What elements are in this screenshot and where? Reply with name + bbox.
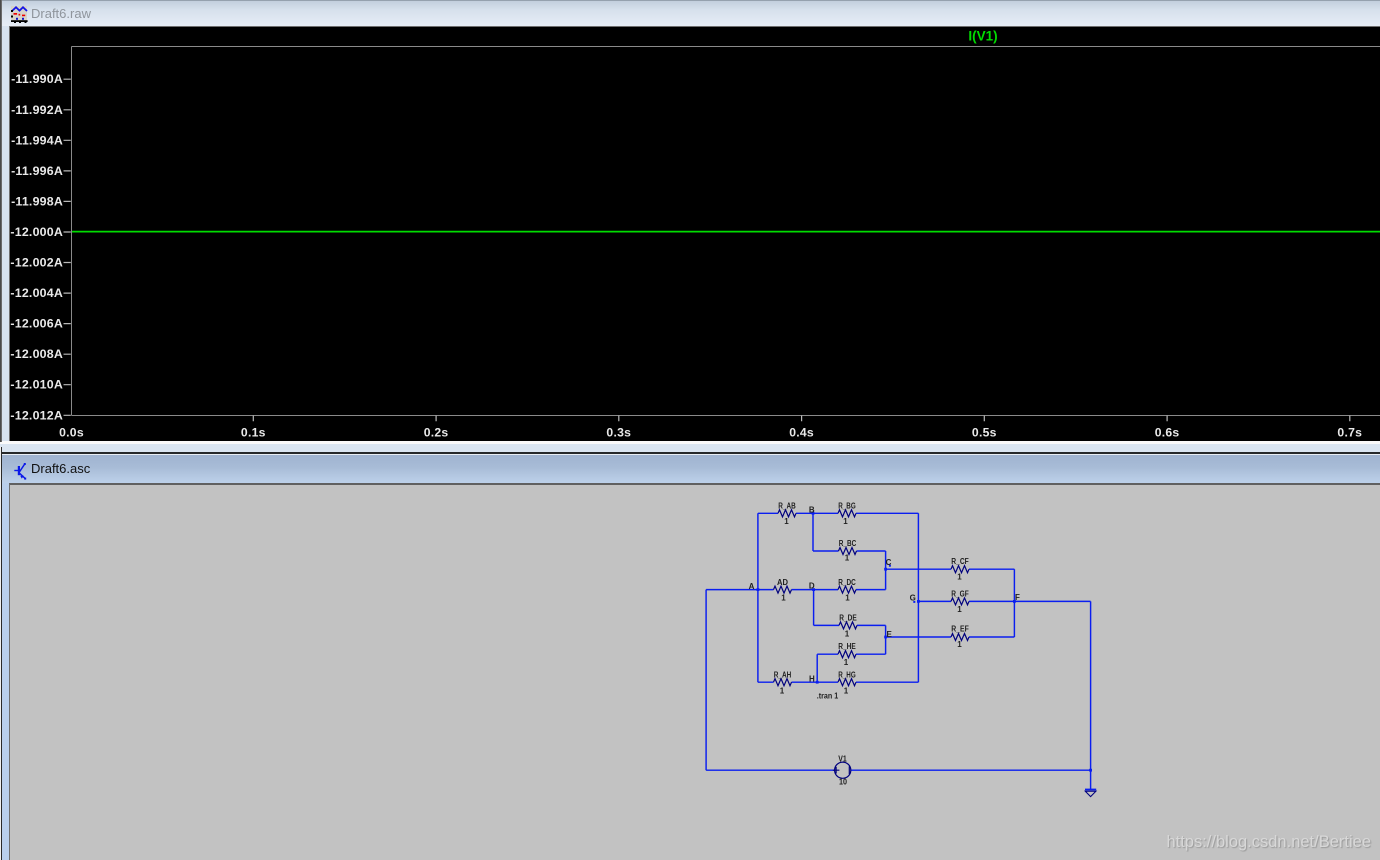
resistor R_EF <box>951 634 969 641</box>
wire A vertical <box>757 513 759 682</box>
gap band <box>0 441 1380 444</box>
svg-text:R_AH: R_AH <box>774 671 792 680</box>
resistor R_HE <box>838 651 856 658</box>
svg-text:-12.004A: -12.004A <box>10 286 63 300</box>
svg-text:1: 1 <box>780 686 785 695</box>
wire E column <box>885 625 887 654</box>
ground <box>1085 790 1096 797</box>
svg-text:E: E <box>887 630 893 639</box>
svg-text:R_HG: R_HG <box>838 671 856 680</box>
waveform window client area <box>9 26 1380 441</box>
svg-text:R_DE: R_DE <box>839 614 857 623</box>
svg-text:-12.006A: -12.006A <box>10 317 63 331</box>
svg-text:1: 1 <box>843 517 848 526</box>
schematic window icon (transistor glyph) <box>14 461 28 481</box>
resistor R_BC <box>839 548 857 555</box>
svg-text:0.3s: 0.3s <box>606 426 631 440</box>
svg-text:R_EF: R_EF <box>951 625 969 634</box>
resistor R_BG <box>838 510 856 517</box>
title bar Draft6.raw <box>0 0 1380 26</box>
schematic window client area <box>9 483 1380 860</box>
resistor R_CF <box>951 566 969 573</box>
svg-text:0.4s: 0.4s <box>789 426 814 440</box>
waveform window icon <box>11 5 28 23</box>
wire D down to DE row <box>814 590 886 626</box>
svg-text:1: 1 <box>957 640 962 649</box>
label anchor dot G <box>913 601 915 603</box>
resistor R_HG <box>838 679 856 686</box>
wire E row to R_EF <box>886 636 1015 638</box>
svg-text:-11.992A: -11.992A <box>11 103 63 117</box>
svg-text:-11.998A: -11.998A <box>11 194 63 208</box>
svg-text:-12.010A: -12.010A <box>10 378 63 392</box>
svg-text:V1: V1 <box>838 754 847 763</box>
wire HE row <box>817 654 885 682</box>
svg-text:R_HE: R_HE <box>838 642 856 651</box>
svg-text:.tran 1: .tran 1 <box>817 691 839 700</box>
svg-text:A: A <box>749 582 755 591</box>
svg-text:R_GF: R_GF <box>951 589 969 598</box>
wire G row to F <box>918 600 1090 602</box>
component labels <box>749 502 1020 787</box>
label anchor dot C <box>889 565 891 567</box>
svg-text:R_BG: R_BG <box>838 502 856 511</box>
y tick dashes <box>64 79 71 415</box>
svg-text:-11.996A: -11.996A <box>11 164 63 178</box>
svg-text:R_BC: R_BC <box>839 539 857 548</box>
svg-text:1: 1 <box>957 573 962 582</box>
svg-text:-12.012A: -12.012A <box>10 408 63 422</box>
wire A-D row <box>706 589 886 591</box>
svg-text:1: 1 <box>845 594 850 603</box>
resistor R_DE <box>839 622 857 629</box>
resistor AD <box>774 586 792 593</box>
resistor R_DC <box>838 586 856 593</box>
svg-text:0.5s: 0.5s <box>972 426 997 440</box>
svg-text:H: H <box>809 675 815 684</box>
svg-text:0.0s: 0.0s <box>59 426 84 440</box>
svg-text:1: 1 <box>845 629 850 638</box>
svg-text:1: 1 <box>781 594 786 603</box>
junction dots <box>757 512 1093 772</box>
svg-text:F: F <box>1015 593 1020 602</box>
svg-text:R_CF: R_CF <box>951 557 969 566</box>
wire left vertical A to V1 <box>705 590 707 771</box>
wire C column <box>885 551 887 590</box>
svg-text:0.2s: 0.2s <box>424 426 449 440</box>
x axis labels <box>59 426 1362 440</box>
svg-text:-11.990A: -11.990A <box>11 72 63 86</box>
svg-text:D: D <box>809 582 815 591</box>
svg-text:0.1s: 0.1s <box>241 426 266 440</box>
x tick marks <box>253 416 1350 422</box>
svg-text:10: 10 <box>839 778 847 787</box>
svg-text:B: B <box>809 505 815 514</box>
wire right vertical F to ground <box>1090 601 1092 789</box>
resistor R_AH <box>774 679 792 686</box>
plot pane border <box>72 47 1380 416</box>
resistor R_AB <box>778 510 796 517</box>
svg-text:-11.994A: -11.994A <box>11 133 63 147</box>
y axis labels <box>10 72 63 422</box>
wire F column <box>1013 569 1015 637</box>
trace I(V1) green line at -12.000A <box>72 231 1380 233</box>
svg-text:0.6s: 0.6s <box>1155 426 1180 440</box>
svg-text:1: 1 <box>784 517 789 526</box>
wire big vertical B-G-H <box>917 513 919 682</box>
wire H row <box>758 681 919 683</box>
wire row1 A-B-G top <box>758 512 919 514</box>
svg-text:AD: AD <box>777 578 788 587</box>
title bar Draft6.asc <box>2 455 1380 483</box>
watermark <box>0 833 1371 852</box>
wire V1 bottom row <box>706 769 1091 771</box>
svg-text:1: 1 <box>845 554 850 563</box>
svg-text:G: G <box>910 593 916 602</box>
wire row2 B to BC to C <box>813 513 886 551</box>
voltage source V1 <box>835 762 851 778</box>
resistor R_GF <box>951 598 969 605</box>
SCHEMATIC <box>706 502 1096 797</box>
wire C row to R_CF <box>886 568 1015 570</box>
svg-text:-12.000A: -12.000A <box>10 225 63 239</box>
svg-text:I(V1): I(V1) <box>968 29 997 44</box>
svg-text:R_DC: R_DC <box>838 578 856 587</box>
svg-text:C: C <box>886 558 892 567</box>
svg-text:1: 1 <box>844 686 849 695</box>
svg-text:-12.002A: -12.002A <box>10 256 63 270</box>
PLOT <box>10 29 1380 440</box>
svg-text:1: 1 <box>844 658 849 667</box>
svg-text:0.7s: 0.7s <box>1337 426 1362 440</box>
svg-text:1: 1 <box>957 605 962 614</box>
svg-text:R_AB: R_AB <box>778 502 796 511</box>
svg-text:-12.008A: -12.008A <box>10 347 63 361</box>
